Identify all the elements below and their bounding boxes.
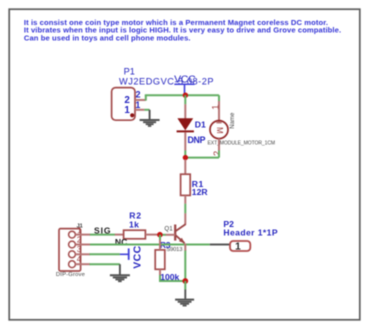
connector P1 label [119, 67, 214, 87]
svg-text:1: 1 [124, 105, 130, 116]
diode D1 anode lead [184, 104, 186, 118]
svg-text:2: 2 [136, 89, 141, 99]
svg-text:M: M [215, 127, 224, 134]
wire R3 bottom [160, 275, 185, 281]
grove connector pin numbers [77, 226, 82, 264]
svg-text:2: 2 [77, 236, 81, 245]
resistor R2 body [124, 230, 146, 239]
transistor Q1 collector lead [184, 213, 186, 224]
wire VCC net horizontal [145, 94, 219, 96]
svg-text:3: 3 [77, 245, 81, 254]
svg-text:1: 1 [135, 100, 140, 110]
resistor R1 top lead [184, 160, 186, 175]
connector P1 pin 2 stub [135, 99, 146, 101]
wire VCC pin3 [90, 253, 120, 255]
transistor Q1 emitter lead [184, 243, 186, 250]
diode D1 triangle [177, 118, 193, 130]
wire VCC net down to motor pin 1 [218, 95, 220, 101]
connector P1 body [112, 88, 135, 121]
svg-text:P1: P1 [124, 67, 135, 77]
svg-text:Can be used in toys and cell p: Can be used in toys and cell phone modul… [24, 34, 191, 43]
svg-text:12R: 12R [192, 187, 209, 197]
diode D1 cathode bar [177, 130, 194, 132]
transistor Q1 base lead [166, 234, 176, 236]
svg-text:DNP: DNP [188, 135, 206, 145]
wire SIG [90, 234, 116, 236]
grove connector pin circles [69, 231, 76, 267]
header P2 body [230, 241, 250, 251]
junction dot node VCC [183, 93, 188, 98]
junction dot ground node [182, 278, 188, 284]
svg-text:WJ2EDGVC-5.08-2P: WJ2EDGVC-5.08-2P [119, 76, 214, 86]
wire motor bottom horizontal [185, 157, 219, 159]
svg-text:VCC: VCC [174, 73, 196, 85]
ground GND1 under P1 [140, 110, 160, 126]
svg-text:D1: D1 [195, 119, 206, 129]
svg-text:1: 1 [235, 242, 241, 253]
svg-text:DIP-Grove: DIP-Grove [56, 272, 85, 278]
svg-text:1k: 1k [129, 219, 139, 229]
motor M lead bottom [218, 139, 220, 151]
svg-text:Name: Name [230, 112, 236, 129]
svg-text:1: 1 [77, 226, 81, 235]
supply symbol VCC left [120, 245, 144, 268]
wire GND pin4 [90, 263, 120, 265]
resistor R2 left lead [115, 234, 124, 236]
svg-text:1: 1 [210, 105, 220, 110]
resistor R3 body [155, 250, 165, 269]
connector P1 pin 1 stub [135, 109, 144, 111]
motor M circle [210, 121, 228, 139]
transistor Q1 [175, 224, 186, 243]
resistor R3 bottom lead [159, 269, 161, 275]
connector P1 pin numbers [135, 89, 140, 110]
connector P1 polarity dot [130, 113, 134, 117]
svg-text:4: 4 [77, 255, 82, 264]
motor plus tick [216, 122, 221, 124]
connector P1 pin names [124, 95, 130, 116]
wire NC to P2 [90, 244, 210, 246]
wire motor pin2 down [218, 151, 220, 158]
junction dot node base [157, 232, 163, 238]
svg-text:Q1: Q1 [164, 225, 173, 232]
wire junction down to R3 [159, 235, 161, 240]
supply symbol VCC top [174, 73, 196, 93]
wire P1 pin1 to ground [144, 109, 149, 111]
junction dot node diode/motor [183, 155, 188, 160]
diode D1 cathode lead [184, 132, 186, 150]
ground GND2 bottom [175, 290, 194, 306]
wire emitter down to ground node [184, 250, 186, 281]
motor M lead top [218, 101, 220, 123]
resistor R3 top lead [159, 240, 161, 250]
resistor R2 right lead [145, 234, 160, 236]
wire diode cathode to node [184, 151, 186, 159]
wire ground node down [184, 281, 186, 290]
svg-text:2: 2 [212, 151, 222, 156]
description text [24, 18, 341, 43]
svg-text:VCC: VCC [132, 245, 144, 268]
wire R1 to Q1 collector [184, 204, 186, 214]
resistor R1 bottom lead [184, 195, 186, 203]
svg-text:Header 1*1P: Header 1*1P [223, 227, 278, 237]
grove connector pin stubs [75, 235, 90, 265]
ground GND3 left [110, 264, 130, 281]
grove connector J1 body [59, 229, 81, 271]
transistor Q1 emitter arrow [179, 238, 185, 244]
wire R2 to base junction [160, 234, 166, 236]
wire junction to diode D1 anode [184, 95, 186, 104]
wire VCC net: P1 pin2 jog up [145, 95, 147, 100]
resistor R1 body [181, 174, 191, 195]
svg-text:EXT_MODULE_MOTOR_1CM: EXT_MODULE_MOTOR_1CM [208, 140, 276, 146]
header P2 pin stub [210, 244, 230, 246]
